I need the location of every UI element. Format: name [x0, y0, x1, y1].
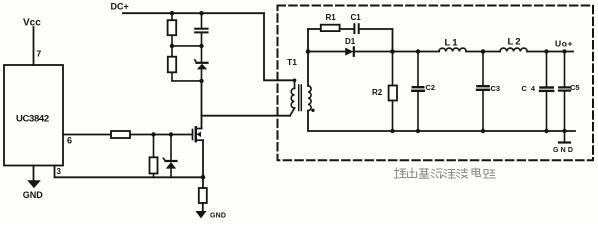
wire node A to D1 — [308, 51, 345, 53]
svg-text:R1: R1 — [326, 13, 337, 22]
svg-text:C4: C4 — [522, 84, 540, 93]
node junction source / pin3 wire — [201, 175, 206, 180]
ground symbol mid — [195, 211, 206, 218]
svg-text:3: 3 — [57, 167, 62, 176]
svg-text:C2: C2 — [426, 83, 436, 92]
dashed output box — [278, 6, 594, 161]
wire IC ground stub — [33, 166, 35, 182]
node junction A secondary top — [306, 49, 311, 54]
wire secondary bottom lead — [308, 111, 575, 131]
node junction C2 top — [416, 49, 420, 53]
svg-text:D1: D1 — [345, 37, 356, 46]
wire between snubber resistors — [171, 35, 173, 57]
svg-text:R2: R2 — [372, 88, 383, 97]
svg-text:GND: GND — [23, 190, 44, 200]
node junction B — [390, 49, 395, 54]
wire L2 to output — [527, 51, 573, 53]
node junction C3 top — [481, 49, 486, 54]
wire MOSFET source down — [202, 140, 204, 188]
wire zener top — [170, 135, 172, 161]
svg-text:7: 7 — [37, 49, 42, 59]
zener diode ZD1 — [163, 158, 176, 168]
wire DC+ rail — [123, 12, 264, 14]
inductor L2 — [500, 48, 527, 51]
phase dot secondary — [311, 109, 314, 112]
capacitor C1 — [354, 24, 358, 33]
capacitor C5 — [559, 52, 570, 132]
node junction C3 bottom — [481, 129, 485, 133]
wire node A to R1 — [308, 28, 321, 30]
wire snubber resistor top stub — [171, 13, 173, 20]
wire D1 to node B — [355, 51, 393, 53]
resistor R gate (series) — [111, 131, 130, 138]
node junction rail / snubber cap — [199, 11, 203, 15]
resistor R snubber lower — [168, 57, 176, 73]
caption 输出整流滤波电路 (output rectifier filter circuit) — [395, 168, 496, 178]
ground symbol under IC — [27, 180, 41, 188]
resistor R1 — [321, 25, 340, 31]
wire snubber cross link upper — [172, 45, 202, 47]
wire output ground stub — [564, 131, 566, 142]
svg-text:Uo+: Uo+ — [555, 39, 573, 49]
svg-text:T1: T1 — [287, 57, 297, 67]
node junction link upper right — [199, 44, 203, 48]
wire R2 bottom — [392, 101, 394, 132]
svg-text:L2: L2 — [508, 37, 523, 48]
node junction gate wire / sense resistor — [151, 132, 155, 136]
node junction rail / snubber resistor — [170, 11, 174, 15]
svg-text:GND: GND — [553, 147, 575, 154]
svg-text:UC3842: UC3842 — [16, 114, 49, 125]
node junction C4 top — [544, 49, 548, 53]
wire R2 top — [392, 52, 394, 86]
node junction C5 top — [562, 49, 566, 53]
resistor R sense — [150, 157, 158, 173]
wire DC+ rail to transformer — [264, 13, 295, 80]
node junction C2 bottom — [416, 129, 420, 133]
wire snubber lower resistor to link — [171, 72, 173, 81]
wire snubber cross link lower — [172, 80, 202, 82]
ground symbol output — [559, 141, 570, 143]
op-amp U1 UC3842 IC body — [4, 65, 63, 166]
wire clamp node to drain corner — [201, 81, 203, 129]
node junction link upper left — [170, 44, 174, 48]
diode D clamp snubber — [195, 46, 208, 81]
svg-text:C1: C1 — [351, 13, 362, 22]
svg-text:L1: L1 — [445, 38, 460, 49]
wire source resistor to ground — [202, 203, 204, 212]
wire pin 3 stub — [55, 166, 204, 178]
transformer T1 secondary winding — [308, 86, 311, 111]
capacitor C4 — [540, 52, 553, 132]
capacitor C3 — [477, 52, 489, 132]
node junction C5 bottom — [562, 129, 566, 133]
transformer T1 core — [299, 85, 302, 111]
transformer T1 primary winding — [290, 80, 295, 115]
capacitor C snubber — [195, 13, 207, 46]
capacitor C2 — [412, 52, 424, 132]
node junction C4 bottom — [544, 129, 548, 133]
svg-text:DC+: DC+ — [111, 2, 129, 12]
node junction R2 bottom — [390, 129, 394, 133]
resistor R source sense — [199, 188, 207, 203]
wire to sense resistor — [153, 135, 155, 158]
wire pin 6 to gate resistor — [63, 134, 111, 136]
node junction gate wire / zener — [169, 132, 173, 136]
wire L1 to L2 — [466, 51, 500, 53]
resistor R snubber upper — [168, 20, 177, 35]
wire drain to transformer primary — [202, 115, 291, 117]
wire Vcc to pin 7 — [33, 27, 35, 65]
wire node B to L1 — [393, 51, 440, 53]
wire zener bottom — [170, 169, 172, 178]
diode D1 — [345, 47, 354, 55]
transistor Q1 MOSFET — [193, 127, 204, 141]
node junction link lower right — [199, 79, 203, 83]
resistor R2 — [389, 86, 397, 101]
inductor L1 — [439, 48, 466, 51]
wire C1 to node B corner — [359, 29, 392, 52]
svg-text:C3: C3 — [491, 84, 501, 93]
svg-text:Vcc: Vcc — [23, 18, 41, 29]
node dot primary top corner — [293, 79, 297, 83]
wire R1 to C1 — [340, 28, 354, 30]
svg-text:GND: GND — [210, 212, 226, 219]
wire secondary top lead to node A — [307, 52, 309, 86]
wire sense resistor bottom — [153, 174, 155, 178]
svg-text:C5: C5 — [570, 83, 580, 92]
svg-text:6: 6 — [67, 136, 72, 146]
wire gate resistor to MOSFET gate — [130, 134, 192, 136]
